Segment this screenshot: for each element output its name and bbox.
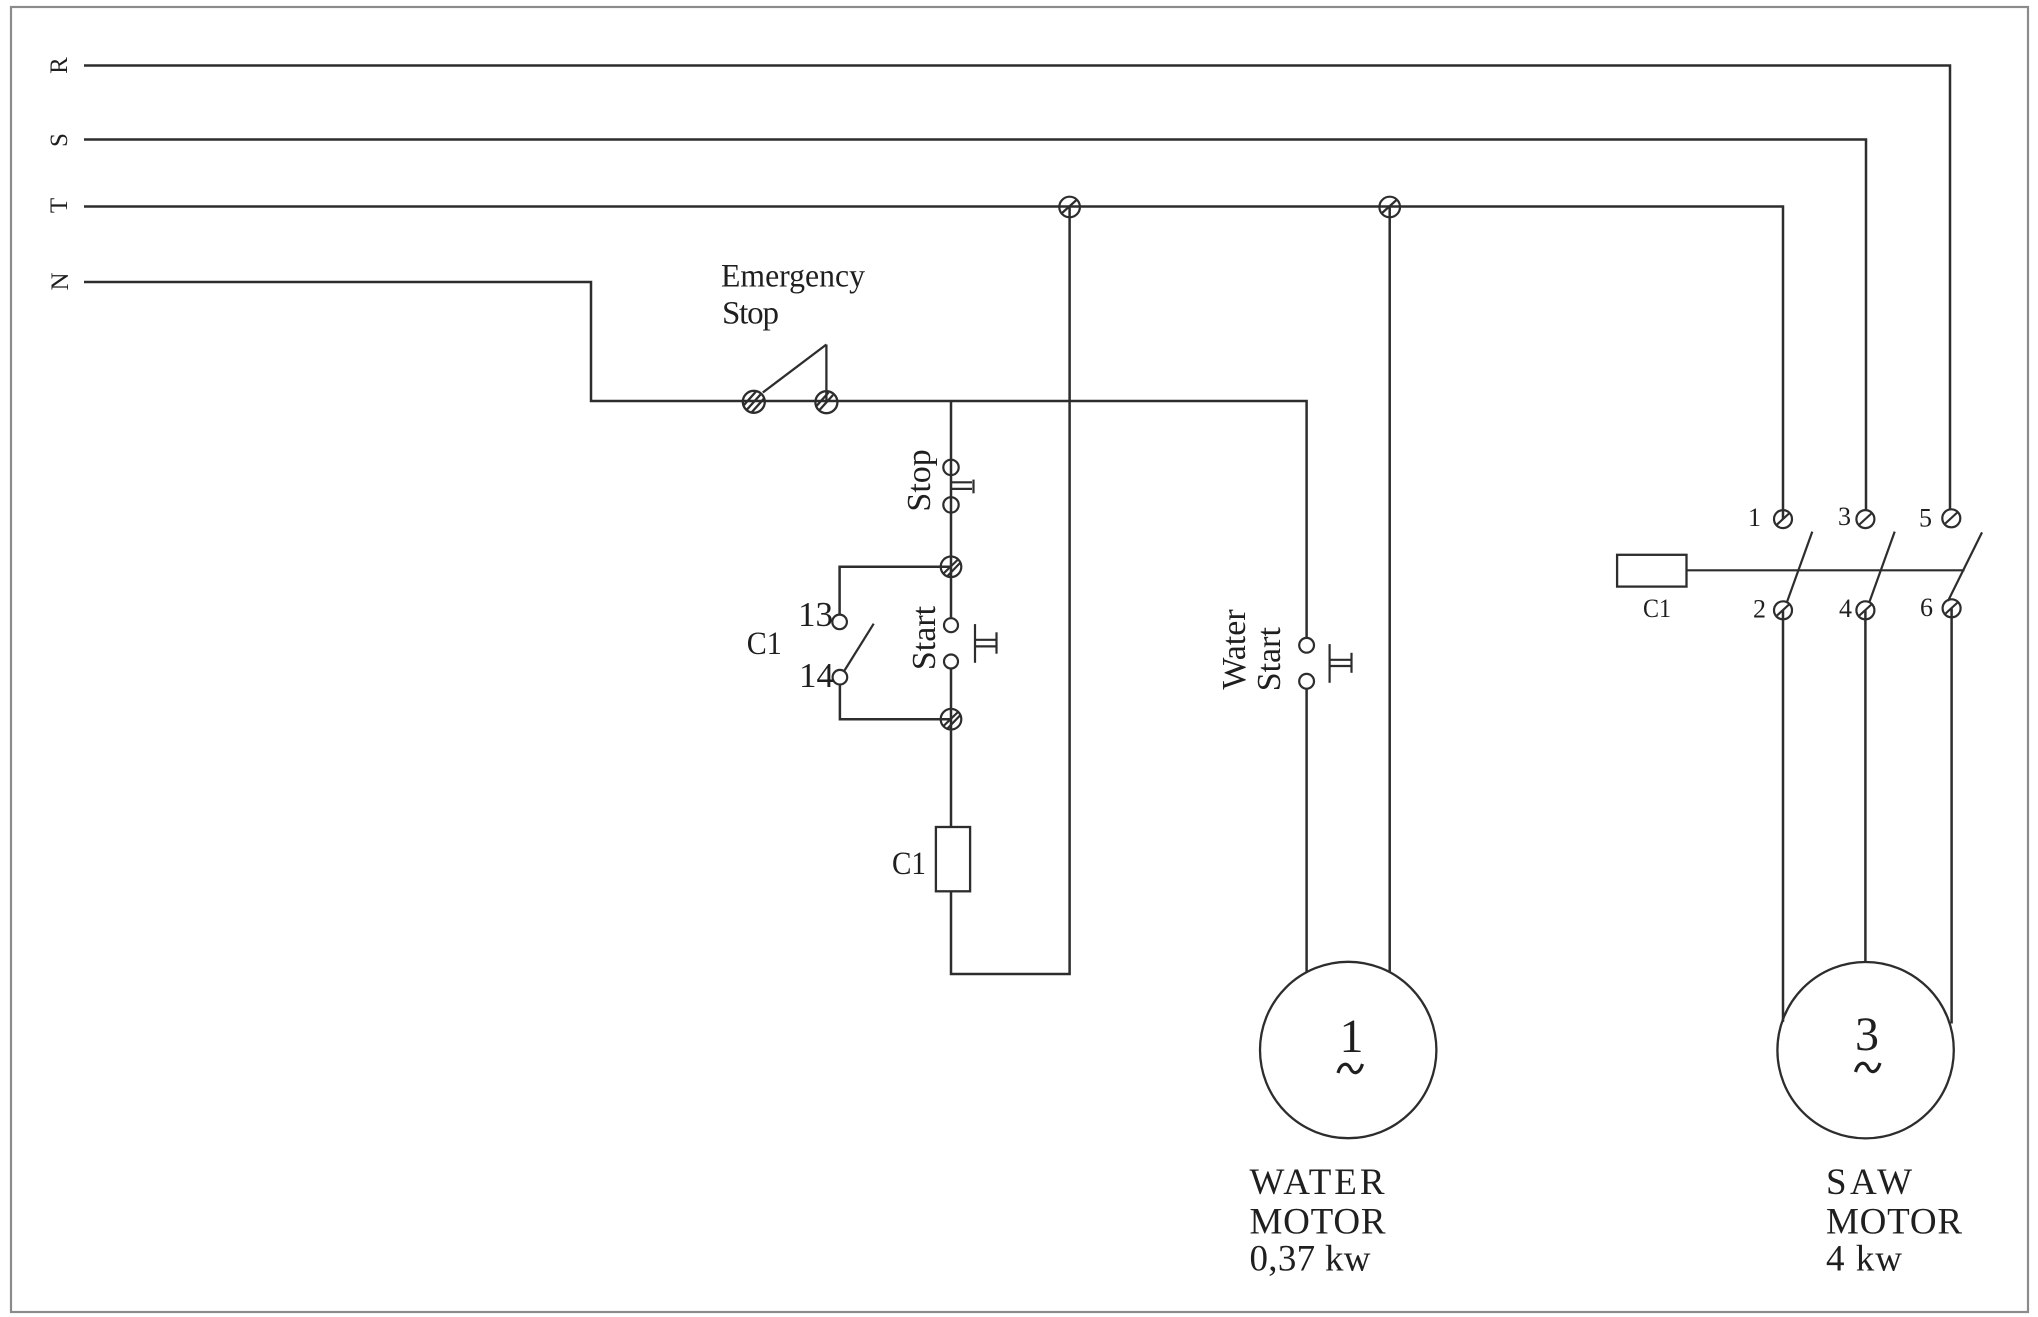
svg-text:WATER: WATER xyxy=(1250,1162,1385,1203)
svg-text:Water: Water xyxy=(1216,609,1253,690)
pushbutton S2 Start (NO) xyxy=(944,618,997,668)
svg-text:14: 14 xyxy=(799,656,834,695)
wire water-start to motor xyxy=(1305,689,1308,972)
node junction below Stop xyxy=(941,557,962,578)
node junction T-line x1389 xyxy=(1379,197,1400,218)
node junction below Start xyxy=(941,709,962,730)
svg-text:3: 3 xyxy=(1855,1008,1879,1061)
svg-text:1: 1 xyxy=(1748,503,1761,532)
contactor main contact 3-4 xyxy=(1856,510,1894,619)
svg-text:R: R xyxy=(46,57,73,74)
svg-text:1: 1 xyxy=(1340,1010,1364,1063)
svg-text:4: 4 xyxy=(1839,594,1852,623)
svg-text:N: N xyxy=(47,272,74,290)
contactor main contact 5-6 xyxy=(1942,509,1982,617)
mechanical linkage line xyxy=(1687,569,1965,571)
wire coil bottom return xyxy=(951,207,1070,974)
svg-text:C1: C1 xyxy=(892,846,926,882)
svg-text:MOTOR: MOTOR xyxy=(1826,1202,1962,1243)
svg-text:Emergency: Emergency xyxy=(721,258,865,294)
wire bus S xyxy=(84,140,1866,511)
svg-text:4 kw: 4 kw xyxy=(1826,1239,1902,1280)
svg-text:C1: C1 xyxy=(1643,594,1671,623)
svg-text:6: 6 xyxy=(1920,593,1933,622)
wire stop branch xyxy=(950,401,953,618)
switch S0 emergency stop xyxy=(743,345,838,414)
svg-text:13: 13 xyxy=(798,595,833,634)
svg-text:T: T xyxy=(46,198,73,213)
motor M1 water motor circle xyxy=(1260,962,1436,1138)
pushbutton S3 Water Start (NO) xyxy=(1299,638,1351,689)
svg-text:2: 2 xyxy=(1753,594,1766,623)
svg-text:MOTOR: MOTOR xyxy=(1250,1202,1386,1243)
wire bus N xyxy=(84,282,1307,638)
wire T branch to water motor xyxy=(1388,207,1391,972)
contact C1 aux 13-14 xyxy=(832,615,873,685)
svg-text:Stop: Stop xyxy=(722,296,779,332)
motor M2 saw motor circle xyxy=(1777,962,1953,1138)
node junction T-line x1069 xyxy=(1059,197,1080,218)
svg-text:Start: Start xyxy=(906,605,943,670)
wire contact6 to saw motor xyxy=(1950,609,1953,1024)
svg-text:5: 5 xyxy=(1919,504,1932,533)
contactor C1 coil (power) xyxy=(1617,555,1686,587)
wire contact4 to saw motor xyxy=(1864,610,1867,962)
wire bus R xyxy=(84,66,1950,511)
svg-text:S: S xyxy=(46,133,73,147)
contactor main contact 1-2 xyxy=(1774,510,1812,619)
wire contact2 to saw motor xyxy=(1782,610,1785,1022)
wire bus T xyxy=(84,207,1783,520)
svg-text:Start: Start xyxy=(1251,627,1288,692)
wire start-to-coil xyxy=(950,669,953,828)
svg-text:Stop: Stop xyxy=(901,449,938,511)
wire 13 branch xyxy=(840,567,951,615)
coil C1 (control) xyxy=(936,827,970,891)
wire 14 branch xyxy=(840,685,951,720)
pushbutton S1 Stop (NC) xyxy=(943,460,973,513)
svg-text:SAW: SAW xyxy=(1826,1162,1912,1203)
svg-text:0,37 kw: 0,37 kw xyxy=(1250,1239,1371,1280)
svg-text:3: 3 xyxy=(1838,502,1851,531)
svg-text:C1: C1 xyxy=(747,626,782,662)
